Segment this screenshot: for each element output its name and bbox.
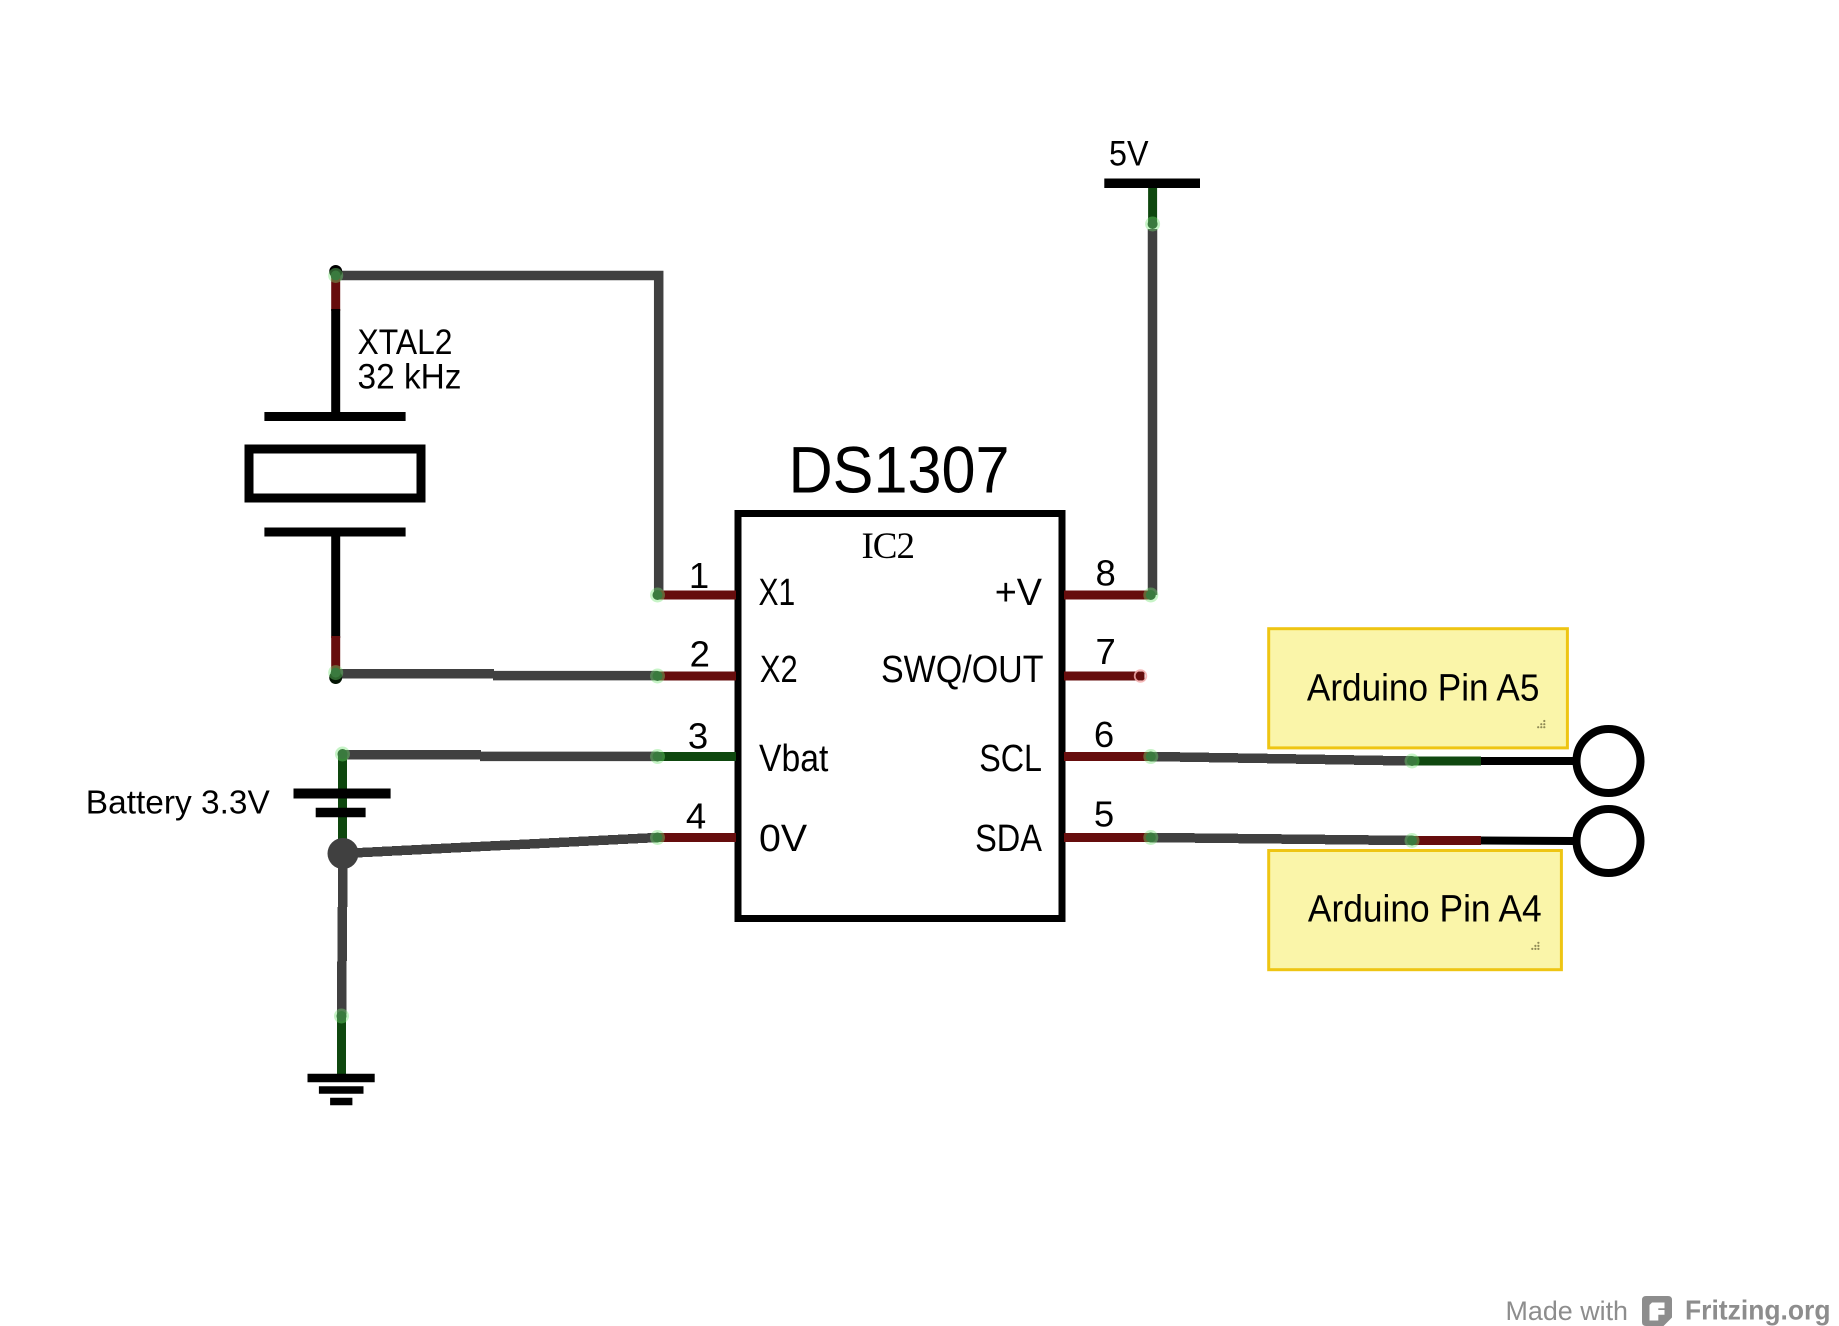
svg-text:6: 6 <box>1094 714 1114 755</box>
svg-text:4: 4 <box>686 796 706 837</box>
svg-text:5: 5 <box>1094 794 1114 835</box>
svg-text:5V: 5V <box>1109 133 1149 173</box>
svg-text:X1: X1 <box>759 572 796 614</box>
svg-text:8: 8 <box>1096 552 1116 593</box>
svg-text:Made with: Made with <box>1506 1296 1629 1326</box>
svg-text:+V: +V <box>995 572 1043 614</box>
svg-text:DS1307: DS1307 <box>789 433 1010 507</box>
svg-text:SDA: SDA <box>975 818 1042 860</box>
svg-text:SWQ/OUT: SWQ/OUT <box>881 649 1044 691</box>
svg-text:X2: X2 <box>760 649 798 691</box>
svg-text:IC2: IC2 <box>861 526 914 567</box>
svg-text:1: 1 <box>689 555 709 596</box>
svg-text:Arduino Pin A5: Arduino Pin A5 <box>1307 668 1540 710</box>
svg-text:0V: 0V <box>759 818 808 860</box>
svg-text:Fritzing.org: Fritzing.org <box>1685 1295 1831 1326</box>
svg-text:Battery 3.3V: Battery 3.3V <box>86 784 271 821</box>
svg-text:3: 3 <box>688 715 708 756</box>
svg-text:7: 7 <box>1096 631 1116 672</box>
svg-text:32 kHz: 32 kHz <box>358 358 462 397</box>
svg-text:Arduino Pin A4: Arduino Pin A4 <box>1308 888 1542 930</box>
svg-text:Vbat: Vbat <box>759 738 829 780</box>
svg-text:2: 2 <box>690 634 710 675</box>
svg-text:XTAL2: XTAL2 <box>358 323 453 362</box>
svg-text:SCL: SCL <box>979 738 1042 780</box>
